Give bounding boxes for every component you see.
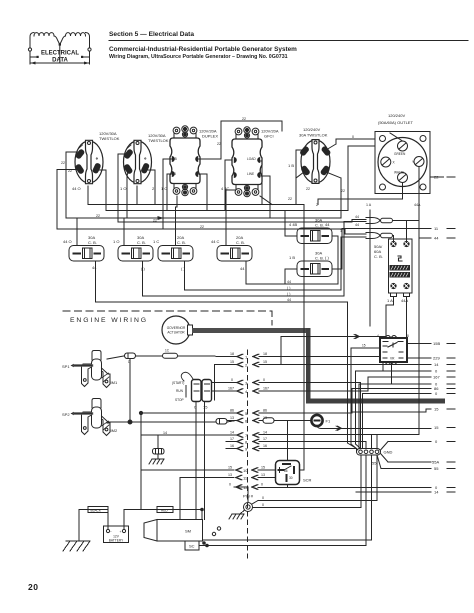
svg-text:+: + — [120, 530, 122, 534]
svg-text:IM1: IM1 — [111, 380, 118, 385]
svg-text:GND: GND — [384, 450, 393, 455]
wire R4 bottom to CB4 — [226, 190, 235, 246]
svg-text:167: 167 — [433, 375, 440, 380]
junction dots SC — [201, 508, 204, 511]
svg-text:SP2: SP2 — [62, 412, 70, 417]
svg-text:16: 16 — [263, 444, 267, 448]
svg-text:GFCI: GFCI — [264, 134, 274, 139]
svg-text:SP1: SP1 — [62, 364, 70, 369]
wire R3 lower right screw drop — [198, 174, 207, 211]
wires: engine section — [79, 205, 431, 547]
wire SCR right long vertical — [300, 205, 305, 471]
svg-text:44: 44 — [325, 222, 330, 227]
svg-text:22: 22 — [288, 197, 292, 201]
inline connector on pin2 loop — [354, 334, 360, 338]
start/run/stop switch SW1 — [172, 372, 212, 409]
receptacle R2 120V/30A TWISTLOK — [124, 140, 152, 183]
wire R5 left prong — [296, 150, 305, 205]
svg-text:C. B.: C. B. — [236, 240, 245, 245]
svg-text:22: 22 — [68, 169, 72, 173]
inline connector on F1 line — [336, 426, 342, 430]
svg-text:BATTERY: BATTERY — [109, 539, 124, 543]
wire 44 stub — [419, 237, 431, 239]
wire R1 right prong drop — [98, 170, 106, 211]
GND terminal strip — [357, 449, 393, 466]
wire CB7 right screw up — [406, 221, 408, 242]
wire splice S1 out 44A — [393, 220, 420, 222]
svg-text:44: 44 — [434, 236, 439, 241]
wire pin9 left — [226, 448, 236, 450]
wire R2 right prong drop — [146, 170, 155, 205]
svg-text:Section 5 — Electrical Data: Section 5 — Electrical Data — [109, 31, 194, 38]
wire pin4 right 167 — [259, 377, 431, 391]
wire pin8 left — [226, 441, 236, 443]
wire CB6 left — [285, 269, 297, 284]
wires: top receptacle section — [57, 121, 444, 449]
wire CB6 right to 11 stub — [332, 229, 431, 270]
svg-text:ENGINE WIRING: ENGINE WIRING — [70, 317, 148, 324]
wire CB4 out — [245, 261, 247, 284]
wire pin12 right / SCR bottom 0 — [258, 487, 431, 489]
wire SC out 1 — [199, 455, 366, 546]
wire pin1 right to relay — [259, 356, 380, 358]
inline connector on pin6 wire — [263, 418, 274, 423]
svg-text:4 4B: 4 4B — [289, 222, 298, 227]
svg-text:55: 55 — [434, 466, 439, 471]
svg-text:22: 22 — [96, 214, 100, 218]
wire pin7 right 14 bus — [259, 434, 419, 436]
svg-text:1 O: 1 O — [120, 186, 126, 191]
wire switch bottom right — [204, 402, 206, 520]
svg-text:15: 15 — [261, 466, 265, 470]
svg-text:0: 0 — [229, 483, 231, 487]
wire pin5 right 86 — [259, 389, 431, 414]
starter motor SM — [144, 520, 203, 551]
wire riser loop to relay top — [281, 337, 386, 365]
svg-text:44: 44 — [287, 298, 291, 302]
svg-text:13: 13 — [230, 416, 234, 420]
wire bus2 up to splice S2 — [341, 237, 366, 290]
svg-text:30: 30 — [289, 476, 293, 480]
svg-text:(START): (START) — [172, 381, 184, 385]
wire number labels — [61, 117, 421, 507]
wire R2 left drop — [118, 154, 128, 222]
fuse F1 — [311, 415, 331, 426]
svg-text:15: 15 — [434, 407, 439, 412]
svg-text:0: 0 — [262, 503, 264, 507]
wire R5 NE prong to outlet — [326, 144, 336, 150]
svg-text:IM2: IM2 — [111, 428, 118, 433]
svg-text:229: 229 — [433, 356, 440, 361]
wire pin10 left — [141, 469, 234, 471]
svg-text:C. B.: C. B. — [374, 254, 383, 259]
wire pin4 left — [212, 390, 237, 392]
relay SCR — [276, 461, 312, 485]
svg-text:13: 13 — [261, 473, 265, 477]
svg-text:18: 18 — [263, 352, 267, 356]
svg-text:22: 22 — [434, 175, 439, 180]
svg-text:15: 15 — [263, 360, 267, 364]
wire outlet Y screw long drop — [418, 167, 420, 435]
wire F1 out 15 — [317, 426, 321, 428]
wire pin2 right to margin — [259, 364, 431, 366]
svg-text:22: 22 — [200, 225, 204, 229]
wire R1 bottom link / bus W1 — [88, 186, 304, 205]
svg-text:120/240V: 120/240V — [388, 113, 405, 118]
svg-text:( ): ( ) — [287, 286, 290, 290]
bus W5 to splice S2 — [57, 229, 366, 234]
connector pins column — [236, 354, 260, 498]
wire 22 left drop from R1 — [66, 152, 82, 218]
svg-text:C. B.: C. B. — [315, 256, 324, 261]
svg-text:Wiring Diagram, UltraSource Po: Wiring Diagram, UltraSource Portable Gen… — [109, 54, 288, 60]
svg-text:GOVERNOR: GOVERNOR — [167, 326, 186, 330]
wire bus4 down long vertical — [347, 302, 349, 443]
connector 1C on IM1 lead — [163, 349, 178, 359]
breaker CB2 30A — [118, 246, 153, 262]
wire pin11 right to SCR — [258, 477, 276, 479]
diode D2 — [128, 419, 227, 425]
wire line 15 right — [352, 409, 431, 412]
bus B2 — [185, 289, 342, 291]
wire pin7 left / capacitor bus 14 — [158, 435, 236, 437]
wire pin3 right to gnd strip — [259, 383, 361, 449]
bus W3 22 — [66, 217, 341, 219]
svg-text:22: 22 — [341, 189, 345, 193]
svg-text:44: 44 — [240, 266, 245, 271]
receptacle R5 120/240V 30A TWISTLOK — [288, 127, 331, 207]
battery ground — [63, 541, 90, 551]
svg-text:ACTUATOR: ACTUATOR — [167, 331, 185, 335]
wire pin8 right — [259, 442, 366, 449]
wire gnd fan 0 — [381, 442, 389, 451]
wire CB2 out — [142, 261, 144, 296]
svg-text:13: 13 — [263, 416, 267, 420]
wire cap left vertical — [141, 413, 158, 510]
wire splice S2 out to CB7 — [393, 236, 394, 242]
wire CB7 bottom out 44A — [406, 297, 408, 359]
wire 22 bus y204 arrow junction — [158, 217, 162, 220]
wire 0 line y371 — [356, 371, 432, 444]
svg-text:17: 17 — [230, 437, 234, 441]
solenoid SC — [185, 541, 199, 550]
svg-text:0: 0 — [352, 135, 354, 139]
svg-text:22: 22 — [153, 219, 157, 223]
svg-text:RUN: RUN — [176, 389, 184, 393]
logo generator windings — [28, 33, 91, 65]
svg-text:(50A/60A) OUTLET: (50A/60A) OUTLET — [378, 120, 413, 125]
svg-text:−: − — [110, 530, 112, 534]
svg-text:55: 55 — [372, 461, 377, 466]
svg-text:GREEN: GREEN — [394, 152, 406, 156]
wire R3 bottom to CB3 — [176, 196, 178, 246]
svg-text:16: 16 — [230, 444, 234, 448]
bus W2 — [106, 210, 348, 212]
svg-text:1 B: 1 B — [288, 163, 294, 168]
splice S2 — [366, 233, 393, 239]
bus B3 — [143, 295, 345, 297]
svg-text:18: 18 — [230, 352, 234, 356]
svg-text:22: 22 — [217, 142, 221, 146]
svg-text:( ): ( ) — [287, 292, 290, 296]
voltage regulator relay VR1 — [362, 334, 409, 365]
wire relay bottom drop 2 — [391, 362, 393, 384]
svg-text:120/240V: 120/240V — [303, 127, 320, 132]
wire pin9 right — [259, 449, 357, 452]
svg-text:17: 17 — [263, 437, 267, 441]
receptacle R1 120V/30A TWISTLOK — [75, 140, 103, 183]
svg-text:14: 14 — [163, 431, 167, 435]
svg-text:1 A: 1 A — [387, 298, 393, 303]
svg-text:0: 0 — [261, 483, 263, 487]
svg-text:F1: F1 — [326, 419, 331, 424]
svg-text:1 C: 1 C — [153, 239, 159, 244]
svg-text:SC: SC — [189, 544, 195, 549]
wire CB7 bottom out 1A to relay — [386, 297, 394, 339]
wire 14 bottom stub — [356, 491, 431, 493]
svg-text:STOP: STOP — [175, 398, 184, 402]
svg-text:RED: RED — [161, 508, 168, 512]
wire IM2 to D2 to pin6 — [107, 421, 236, 424]
svg-text:1 O: 1 O — [113, 239, 119, 244]
svg-text:0: 0 — [262, 496, 264, 500]
wire SM out 2 — [203, 455, 372, 540]
svg-text:15: 15 — [228, 466, 232, 470]
svg-text:LOAD: LOAD — [247, 157, 256, 161]
inline connectors near SM — [212, 532, 215, 535]
wire R5 SE prong down — [326, 172, 341, 178]
wire R4 right screws — [260, 161, 262, 205]
bus B4 44 — [96, 301, 348, 303]
red cable label — [157, 507, 173, 513]
wire R3 left screw drop — [163, 159, 172, 229]
wire R3 right top screw over to GFCI — [198, 121, 282, 159]
svg-text:15: 15 — [362, 344, 366, 348]
svg-text:22: 22 — [242, 117, 246, 121]
wire R4 left screw drop — [225, 160, 232, 211]
svg-text:14: 14 — [434, 362, 439, 367]
svg-text:1 C: 1 C — [161, 186, 167, 191]
svg-text:15: 15 — [230, 360, 234, 364]
svg-text:C. B.: C. B. — [88, 240, 97, 245]
svg-text:15: 15 — [434, 425, 439, 430]
svg-text:44A: 44A — [401, 298, 408, 303]
svg-text:30A TWISTLOK: 30A TWISTLOK — [299, 133, 328, 138]
svg-text:WHITE: WHITE — [394, 171, 404, 175]
svg-text:BLACK: BLACK — [91, 508, 102, 512]
breaker CB6 30A — [297, 261, 332, 277]
wire 22 outlet stub — [430, 176, 444, 178]
splice S1 — [366, 218, 393, 224]
svg-text:C. B.: C. B. — [177, 240, 186, 245]
wire 1A long vertical — [369, 210, 371, 326]
wire R5 lower left prong — [296, 172, 304, 178]
svg-text:55A: 55A — [432, 460, 439, 465]
svg-text:15: 15 — [203, 405, 208, 410]
breaker CB1 30A — [69, 246, 104, 262]
svg-text:14: 14 — [263, 431, 267, 435]
ignition module IM1 — [62, 351, 118, 388]
svg-text:( ): ( ) — [141, 266, 145, 271]
wire ring to strip 1 — [252, 501, 258, 505]
svg-text:44 O: 44 O — [63, 239, 72, 244]
svg-text:44 O: 44 O — [72, 186, 81, 191]
wire pin5 left — [141, 412, 236, 414]
wire battery plus red — [124, 510, 202, 530]
receptacle R4 120V/20A GFCI — [232, 127, 262, 197]
wire R3 lower-left screw drop — [167, 174, 172, 211]
svg-text:86: 86 — [263, 409, 267, 413]
black cable label — [88, 507, 108, 513]
wire pin2 left riser — [215, 365, 237, 401]
receptacle R6 120/240V (50A/60A) OUTLET plate — [375, 113, 430, 194]
wire 0 line y393 — [362, 394, 364, 449]
engine wiring dashed boundary — [63, 310, 272, 312]
svg-text:DATA: DATA — [52, 58, 68, 64]
svg-text:SM: SM — [185, 529, 191, 534]
governor linkage (thick hatched rod) — [188, 325, 446, 403]
svg-text:22: 22 — [306, 187, 310, 191]
wire pin12 left to ring — [234, 487, 248, 503]
bus W4 to splice S1 — [118, 220, 366, 223]
wire R2 bottom drop — [136, 186, 138, 205]
wire CB2 feed — [123, 218, 125, 246]
svg-text:C. B.: C. B. — [137, 240, 146, 245]
svg-text:44: 44 — [355, 223, 359, 227]
wire 55 line — [377, 455, 381, 469]
svg-text:0: 0 — [231, 378, 233, 382]
governor actuator — [162, 316, 190, 344]
wire 0 line y393 right part — [363, 393, 432, 395]
svg-text:SCR: SCR — [303, 478, 312, 483]
battery 12V — [104, 526, 129, 543]
svg-text:0: 0 — [263, 378, 265, 382]
svg-text:1 B: 1 B — [172, 157, 177, 161]
wire SCR top drop — [287, 421, 289, 461]
svg-text:44: 44 — [287, 280, 291, 284]
wire switch bottom left — [195, 402, 197, 520]
bus B1 44 — [246, 283, 338, 285]
wire pin10 right to SCR — [258, 469, 276, 471]
right margin stubs — [432, 175, 455, 495]
svg-text:167: 167 — [228, 387, 234, 391]
svg-text:1 A: 1 A — [366, 203, 372, 207]
wire CB3 out — [184, 261, 186, 290]
capacitor C1 with ground — [149, 437, 164, 464]
breaker CB3 20A — [158, 246, 193, 262]
wire CB5 left — [285, 211, 297, 237]
svg-text:( ): ( ) — [325, 255, 329, 260]
svg-text:167: 167 — [263, 387, 269, 391]
svg-text:44: 44 — [355, 215, 359, 219]
wire CB1 out — [95, 261, 97, 302]
wire 0 line y384 — [358, 384, 360, 449]
wire gnd x377 drop — [376, 435, 378, 449]
wire junction vertical — [129, 359, 131, 423]
wire outlet white screw down — [318, 183, 403, 205]
svg-text:86: 86 — [230, 409, 234, 413]
svg-text:22: 22 — [61, 161, 65, 165]
wire relay left 15 stub — [351, 348, 380, 444]
wire 22 left drop 2 from R1 — [57, 170, 79, 230]
svg-text:LINE: LINE — [247, 172, 254, 176]
receptacle R3 120V/20A DUPLEX — [170, 126, 200, 196]
svg-text:44 C: 44 C — [211, 239, 220, 244]
ignition module IM2 — [62, 399, 118, 436]
svg-text:1: 1 — [340, 229, 342, 233]
svg-text:ELECTRICAL: ELECTRICAL — [41, 51, 79, 57]
svg-text:13: 13 — [228, 473, 232, 477]
svg-text:1 B: 1 B — [289, 255, 295, 260]
svg-text:TWISTLOK: TWISTLOK — [99, 136, 120, 141]
wire CB1 feed — [76, 218, 78, 246]
wire gnd x371 drop — [371, 435, 373, 449]
svg-text:C. B.: C. B. — [315, 223, 324, 228]
wire R4 bottom diagonal to bus W1 — [260, 196, 272, 205]
svg-text:1C: 1C — [165, 349, 170, 353]
wire ring to strip 2 — [253, 455, 362, 508]
svg-text:VR: VR — [390, 357, 395, 361]
wire pin3 left — [212, 382, 237, 384]
wire pin6 right to F1 — [259, 420, 311, 422]
wire pin11 left — [180, 478, 234, 520]
svg-text:15B: 15B — [433, 341, 440, 346]
wire battery minus black — [79, 510, 108, 542]
wire relay right 229 — [407, 357, 431, 359]
svg-text:14: 14 — [434, 490, 439, 495]
ring terminal PIN# — [229, 503, 253, 520]
wire R2 prong lead — [127, 172, 128, 176]
wire outlet X screw path — [348, 146, 375, 211]
breaker CB4 20A — [217, 246, 252, 262]
breaker CB5 30A — [297, 228, 332, 244]
svg-text:8: 8 — [407, 334, 409, 338]
svg-text:1B: 1B — [172, 172, 176, 176]
diode D on IM1 lead — [125, 353, 136, 364]
svg-text:44A: 44A — [414, 203, 421, 207]
wire gnd fan 55A — [381, 454, 389, 463]
svg-text:10: 10 — [243, 468, 248, 473]
svg-text:86: 86 — [284, 469, 288, 473]
svg-text:14: 14 — [230, 431, 234, 435]
svg-text:TWISTLOK: TWISTLOK — [148, 138, 169, 143]
svg-text:DUPLEX: DUPLEX — [202, 134, 218, 139]
wire relay right 15B — [407, 343, 431, 345]
svg-text:44: 44 — [92, 265, 97, 270]
wire IM1 to D to 1C to pin1 — [107, 356, 125, 359]
svg-text:Commercial-Industrial-Resident: Commercial-Industrial-Residential Portab… — [109, 46, 297, 53]
wire relay bottom drop 1 — [382, 362, 384, 371]
wire bus3 up to splice S1 — [344, 222, 366, 297]
wire CB5 right to bus B1 — [332, 236, 338, 284]
svg-text:20: 20 — [28, 582, 38, 592]
breaker CB7 50A/60A — [374, 239, 412, 303]
